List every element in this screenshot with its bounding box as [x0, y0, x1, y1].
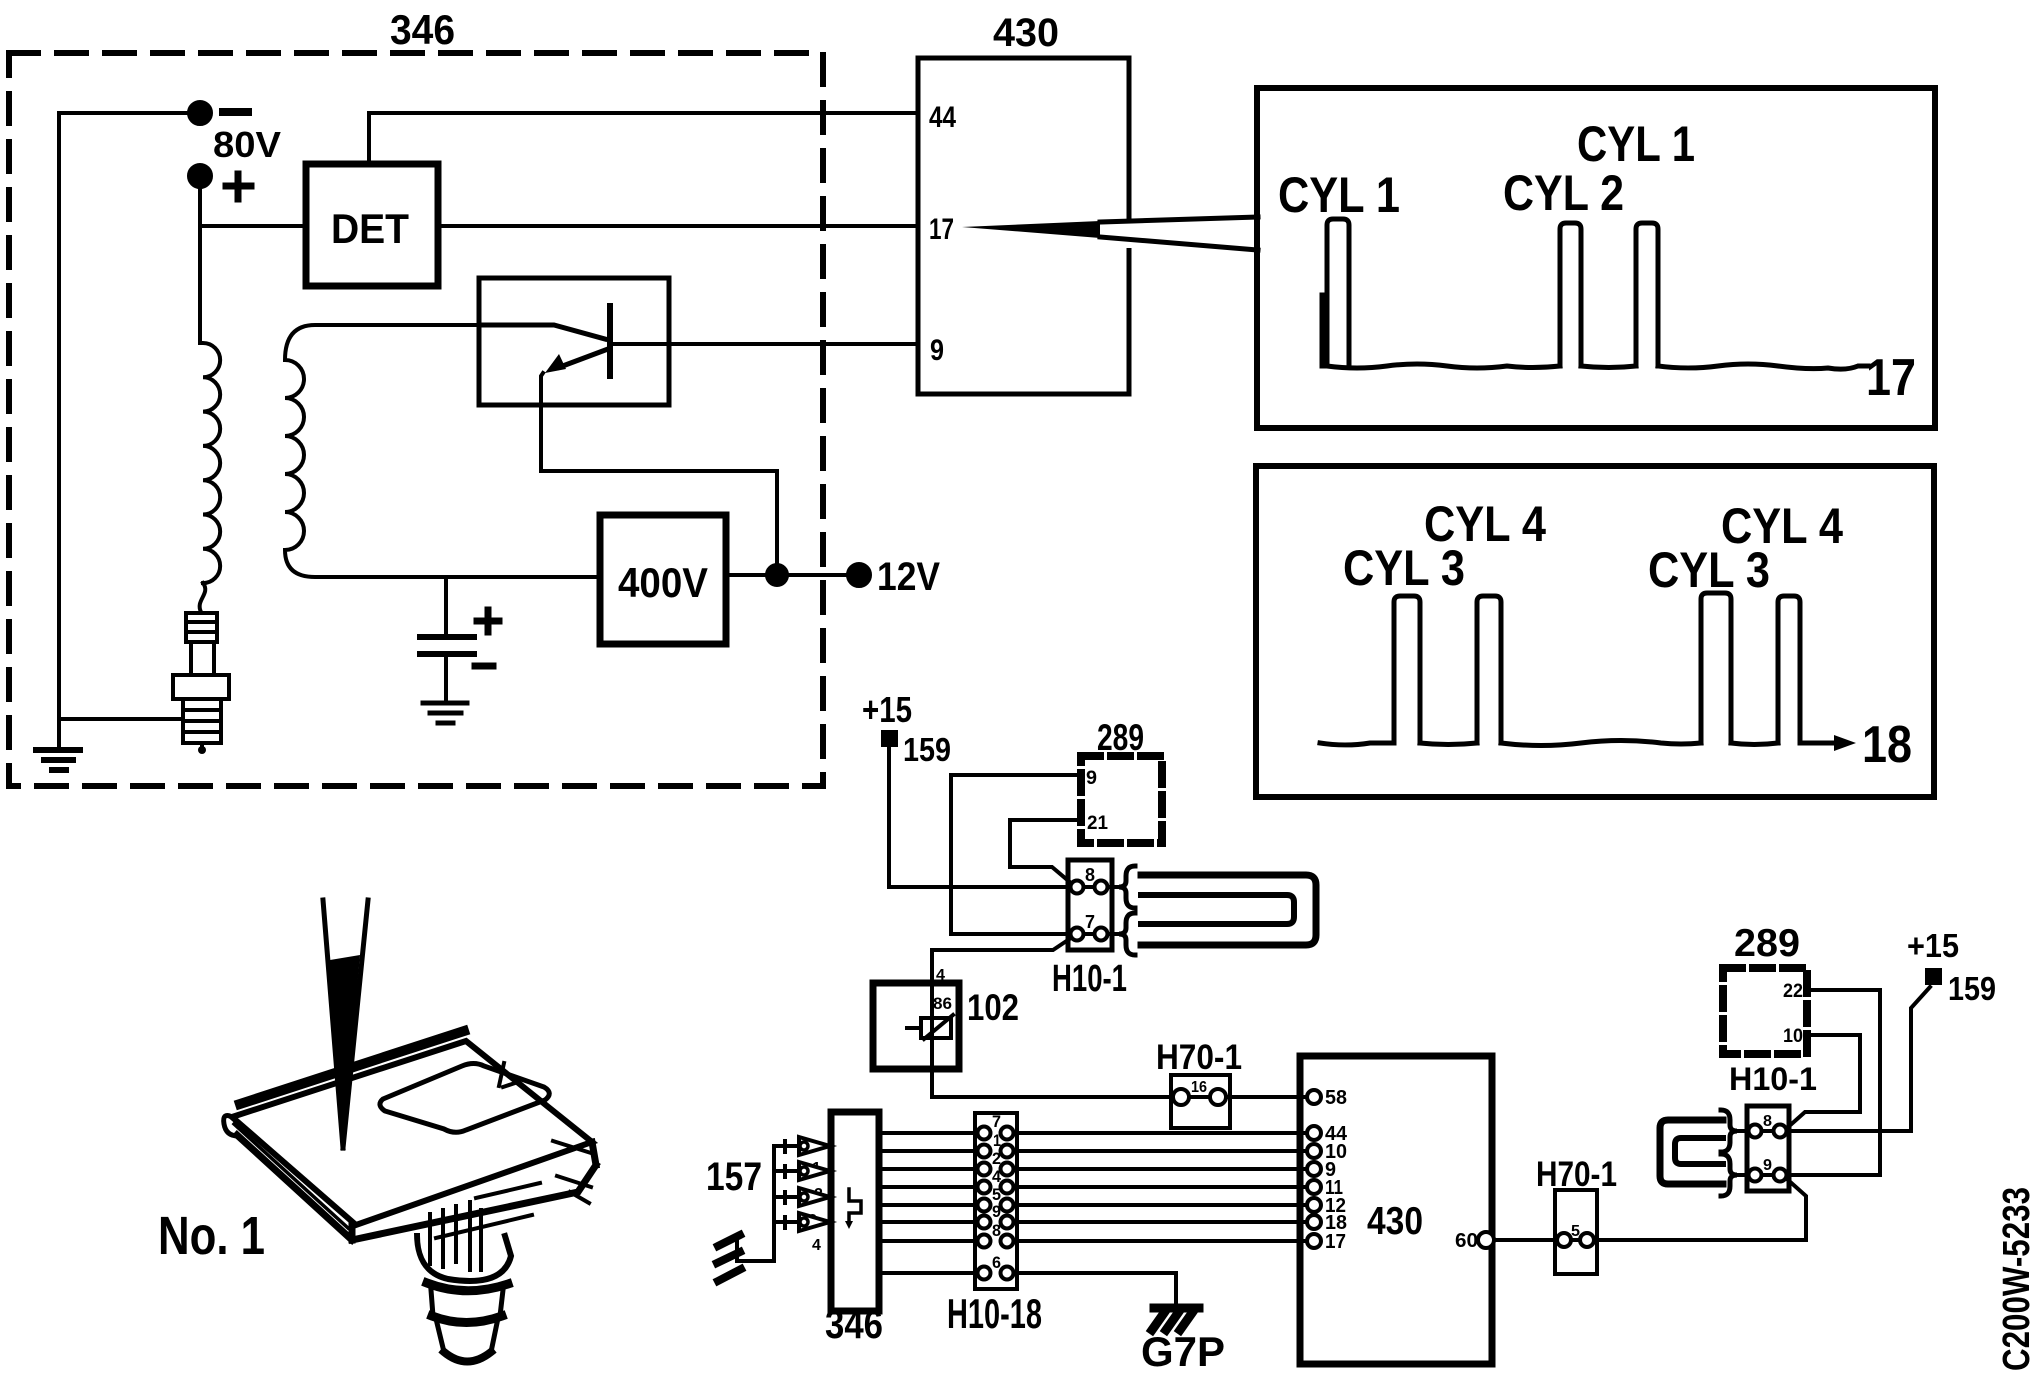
- wire: 289 pin 9 to H10-1 pin 7: [951, 775, 1081, 934]
- pulse symbol inside 346: [849, 1189, 861, 1222]
- pin 5 (H10-18): [978, 1199, 991, 1212]
- probe needle: [323, 900, 368, 1148]
- svg-text:289: 289: [1734, 922, 1800, 965]
- connector H10-1 (middle): [1068, 860, 1112, 950]
- pin 17: [1307, 1234, 1321, 1248]
- pin 8 (H10-1): [1071, 881, 1084, 894]
- node 12V terminal: [848, 564, 870, 586]
- wire: coil to plug terminal: [200, 583, 206, 612]
- svg-text:No. 1: No. 1: [158, 1206, 265, 1266]
- svg-text:4: 4: [936, 967, 945, 984]
- connector H10-1 (right): [1747, 1106, 1789, 1191]
- svg-text:CYL 1: CYL 1: [1577, 116, 1695, 172]
- svg-text:H10-1: H10-1: [1052, 958, 1127, 1000]
- pin 1 (H10-18): [978, 1145, 991, 1158]
- arrow input 2: [774, 1166, 799, 1177]
- relay 102: [873, 983, 959, 1069]
- power terminal +15 / 159 (right): [1925, 968, 1942, 985]
- pad detail marks: [499, 1063, 518, 1087]
- sensor bushing middle: [427, 1283, 508, 1291]
- svg-text:289: 289: [1097, 717, 1144, 758]
- wire: +15 right to H10-1 pin 8: [1788, 987, 1930, 1131]
- sensor plate top face: [232, 1041, 592, 1225]
- wire: H70-1 right to H10-1 pin 9: [1594, 1180, 1806, 1240]
- svg-text:10: 10: [1783, 1026, 1803, 1047]
- pointer wedge from pin 17 to scope panel: [1124, 219, 1134, 248]
- wire: battery to ground: [444, 656, 448, 701]
- relay contact symbol: [921, 1018, 951, 1038]
- svg-text:7: 7: [992, 1112, 1001, 1131]
- waveform trace 17: [1322, 295, 1868, 369]
- pin 8 (H10-1 right): [1749, 1125, 1762, 1138]
- detector block DET: [306, 164, 438, 286]
- shield symbol 157: [717, 1235, 741, 1281]
- sensor plate back edge: [240, 1031, 464, 1104]
- ground G-left: [36, 750, 80, 770]
- plate thickness side: [237, 1135, 596, 1240]
- pin 12: [1307, 1198, 1321, 1212]
- plate left corner fold: [224, 1116, 238, 1136]
- svg-text:8: 8: [992, 1221, 1001, 1240]
- ignition module box 346 (dashed): [9, 53, 823, 786]
- svg-text:17: 17: [1866, 349, 1916, 407]
- arrow input 4: [774, 1217, 799, 1228]
- svg-text:159: 159: [903, 731, 951, 768]
- wire: 289 pin 21 to H10-1 pin 8: [1010, 820, 1081, 883]
- wire: 289 pin 10 to H10-1 pin 8: [1787, 1035, 1860, 1128]
- wire: DET output to ECU pin 17: [438, 224, 918, 228]
- ECU box 430 (top): [918, 58, 1129, 394]
- wire: H10-18 pin 6 to ground G7P: [1014, 1273, 1176, 1304]
- sensor bushing cone: [437, 1323, 497, 1352]
- connector H70-1 (right): [1555, 1190, 1597, 1274]
- pin 9 (H10-18): [978, 1216, 991, 1229]
- connector H10-18: [975, 1113, 1017, 1289]
- pin 60: [1478, 1232, 1494, 1248]
- input arrows 157: [738, 1146, 774, 1261]
- coil L1 secondary winding: [203, 343, 220, 583]
- svg-text:18: 18: [1862, 716, 1912, 774]
- svg-text:346: 346: [825, 1301, 883, 1347]
- svg-text:21: 21: [1087, 813, 1108, 834]
- svg-text:H70-1: H70-1: [1536, 1155, 1617, 1194]
- svg-text:16: 16: [1191, 1079, 1207, 1096]
- svg-text:+15: +15: [862, 689, 912, 730]
- svg-text:9: 9: [992, 1202, 1001, 1221]
- wires 346 to H10-18: [879, 1133, 975, 1273]
- wire: left rail to spark plug shell: [59, 717, 183, 721]
- wire: H70-1 to ECU pin 58: [1226, 1095, 1307, 1099]
- svg-text:60: 60: [1455, 1230, 1478, 1252]
- transistor Q1: [479, 306, 610, 376]
- pin 58: [1307, 1090, 1321, 1104]
- wire: H10-1 pin 7 to relay 102 pin 4: [932, 938, 1071, 1097]
- raised pad on plate: [380, 1064, 549, 1133]
- svg-text:DET: DET: [331, 205, 409, 252]
- wire: emitter down to 12V node: [541, 373, 777, 575]
- svg-text:80V: 80V: [213, 124, 281, 165]
- battery B1: [420, 637, 474, 654]
- ground G7P: [1154, 1304, 1199, 1313]
- ECU box 430 (bottom): [1300, 1056, 1492, 1364]
- svg-text:CYL 3: CYL 3: [1648, 542, 1770, 598]
- node plus terminal: [189, 165, 211, 187]
- svg-text:9: 9: [930, 334, 944, 367]
- svg-text:157: 157: [706, 1155, 762, 1199]
- ground G-battery: [423, 703, 467, 723]
- svg-text:C200W-5233: C200W-5233: [1996, 1187, 2034, 1371]
- pin 18: [1307, 1215, 1321, 1229]
- svg-text:17: 17: [1325, 1231, 1346, 1253]
- pin 7 (H10-18): [978, 1127, 991, 1140]
- pin 7 (H10-1): [1071, 928, 1084, 941]
- coil L2 primary winding + wire to transistor base: [285, 325, 600, 577]
- wire: battery tap: [444, 577, 448, 634]
- svg-text:H10-18: H10-18: [947, 1290, 1042, 1337]
- wire: relay 102 to H70-1 pin 16: [932, 1095, 1173, 1099]
- svg-text:17: 17: [929, 213, 954, 246]
- svg-text:44: 44: [929, 101, 956, 134]
- svg-text:9: 9: [1086, 768, 1097, 789]
- svg-text:12V: 12V: [877, 555, 940, 599]
- pin 2 (H10-18): [978, 1163, 991, 1176]
- svg-text:8: 8: [1763, 1113, 1772, 1130]
- spark plug P1: [173, 613, 229, 754]
- svg-text:2: 2: [992, 1149, 1001, 1168]
- wire: ECU pin 60 to H70-1 (right): [1494, 1238, 1557, 1242]
- bracket under plate: [430, 1202, 470, 1267]
- svg-text:6: 6: [992, 1253, 1001, 1272]
- connector H70-1 (middle): [1171, 1075, 1230, 1128]
- svg-text:7: 7: [1085, 912, 1095, 932]
- pin 9: [1307, 1162, 1321, 1176]
- scope panel 18: [1256, 466, 1934, 797]
- svg-text:H70-1: H70-1: [1156, 1038, 1242, 1077]
- wire: DET top to ECU pin 44: [369, 113, 918, 164]
- pin 8 (H10-18): [978, 1235, 991, 1248]
- sensor bushing upper cup: [417, 1236, 511, 1281]
- converter block 400V: [600, 515, 726, 644]
- wires H10-18 to ECU 430: [1014, 1133, 1307, 1241]
- pin 44: [1307, 1126, 1321, 1140]
- brace lower (heater 1): [1119, 913, 1135, 955]
- pin 6 (H10-18): [978, 1267, 991, 1280]
- glow plug heater element (right): [1660, 1120, 1723, 1184]
- svg-text:86: 86: [933, 994, 952, 1013]
- power terminal +15 / 159 (middle): [881, 730, 898, 747]
- wire: collector to ECU pin 9: [612, 342, 918, 346]
- arrow input 3: [774, 1192, 799, 1203]
- svg-text:346: 346: [390, 6, 455, 53]
- svg-text:159: 159: [1948, 970, 1996, 1007]
- connector 289 (middle, dashed): [1081, 756, 1162, 843]
- wire: left rail to minus terminal: [59, 113, 190, 748]
- svg-text:CYL 3: CYL 3: [1343, 540, 1465, 596]
- connector 289 (right, dashed): [1723, 968, 1807, 1054]
- svg-text:22: 22: [1783, 981, 1803, 1002]
- svg-text:8: 8: [1085, 865, 1095, 885]
- svg-text:CYL 1: CYL 1: [1278, 167, 1400, 223]
- svg-text:9: 9: [1763, 1157, 1772, 1174]
- wire: 289 pin 22 to H10-1 pin 9: [1788, 990, 1880, 1175]
- svg-text:430: 430: [993, 11, 1059, 55]
- wire: +15 to H10-1 pin 8: [889, 747, 1070, 887]
- sensor block 346 (bottom): [831, 1112, 879, 1311]
- svg-text:4: 4: [812, 1237, 821, 1254]
- svg-text:+15: +15: [1907, 927, 1959, 964]
- brace upper (heater 1): [1119, 866, 1135, 908]
- svg-text:430: 430: [1367, 1200, 1423, 1243]
- node junction: [767, 565, 787, 585]
- glow plug heater element (middle): [1141, 875, 1316, 945]
- svg-text:400V: 400V: [618, 559, 708, 606]
- wire: plus terminal down to coil, branch to DET: [200, 187, 306, 343]
- scope panel 17: [1257, 88, 1935, 428]
- brace upper (heater 2): [1721, 1110, 1737, 1152]
- svg-text:G7P: G7P: [1141, 1328, 1225, 1375]
- brace lower (heater 2): [1721, 1154, 1737, 1196]
- pin 10: [1307, 1144, 1321, 1158]
- svg-text:H10-1: H10-1: [1729, 1061, 1817, 1097]
- svg-text:58: 58: [1325, 1087, 1347, 1109]
- svg-text:1: 1: [993, 1131, 1001, 1150]
- pin 11: [1307, 1180, 1321, 1194]
- svg-text:CYL 2: CYL 2: [1503, 165, 1624, 221]
- svg-text:4: 4: [992, 1167, 1002, 1186]
- sensor bushing band: [432, 1316, 502, 1323]
- pin 4 (H10-18): [978, 1181, 991, 1194]
- svg-text:102: 102: [967, 987, 1019, 1028]
- node minus terminal: [189, 102, 211, 124]
- wire: 400V output to 12V terminal: [726, 573, 848, 577]
- waveform trace 18: [1320, 741, 1836, 746]
- pin 9 (H10-1 right): [1749, 1169, 1762, 1182]
- transistor Q1 box: [479, 278, 669, 405]
- arrow input 1: [774, 1141, 799, 1152]
